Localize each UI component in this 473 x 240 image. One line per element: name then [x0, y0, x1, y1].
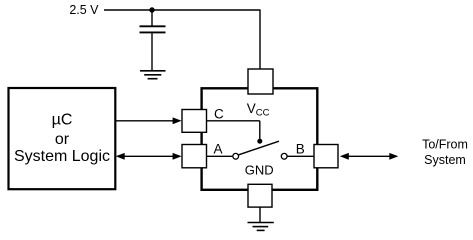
- svg-text:System Logic: System Logic: [14, 148, 110, 165]
- svg-text:C: C: [214, 107, 224, 122]
- svg-text:or: or: [55, 131, 70, 148]
- svg-text:To/From: To/From: [422, 138, 468, 152]
- svg-text:2.5 V: 2.5 V: [69, 3, 99, 17]
- svg-text:B: B: [296, 141, 305, 156]
- svg-text:GND: GND: [245, 163, 274, 178]
- svg-text:System: System: [424, 153, 466, 167]
- svg-text:A: A: [214, 141, 223, 156]
- svg-text:µC: µC: [52, 112, 73, 129]
